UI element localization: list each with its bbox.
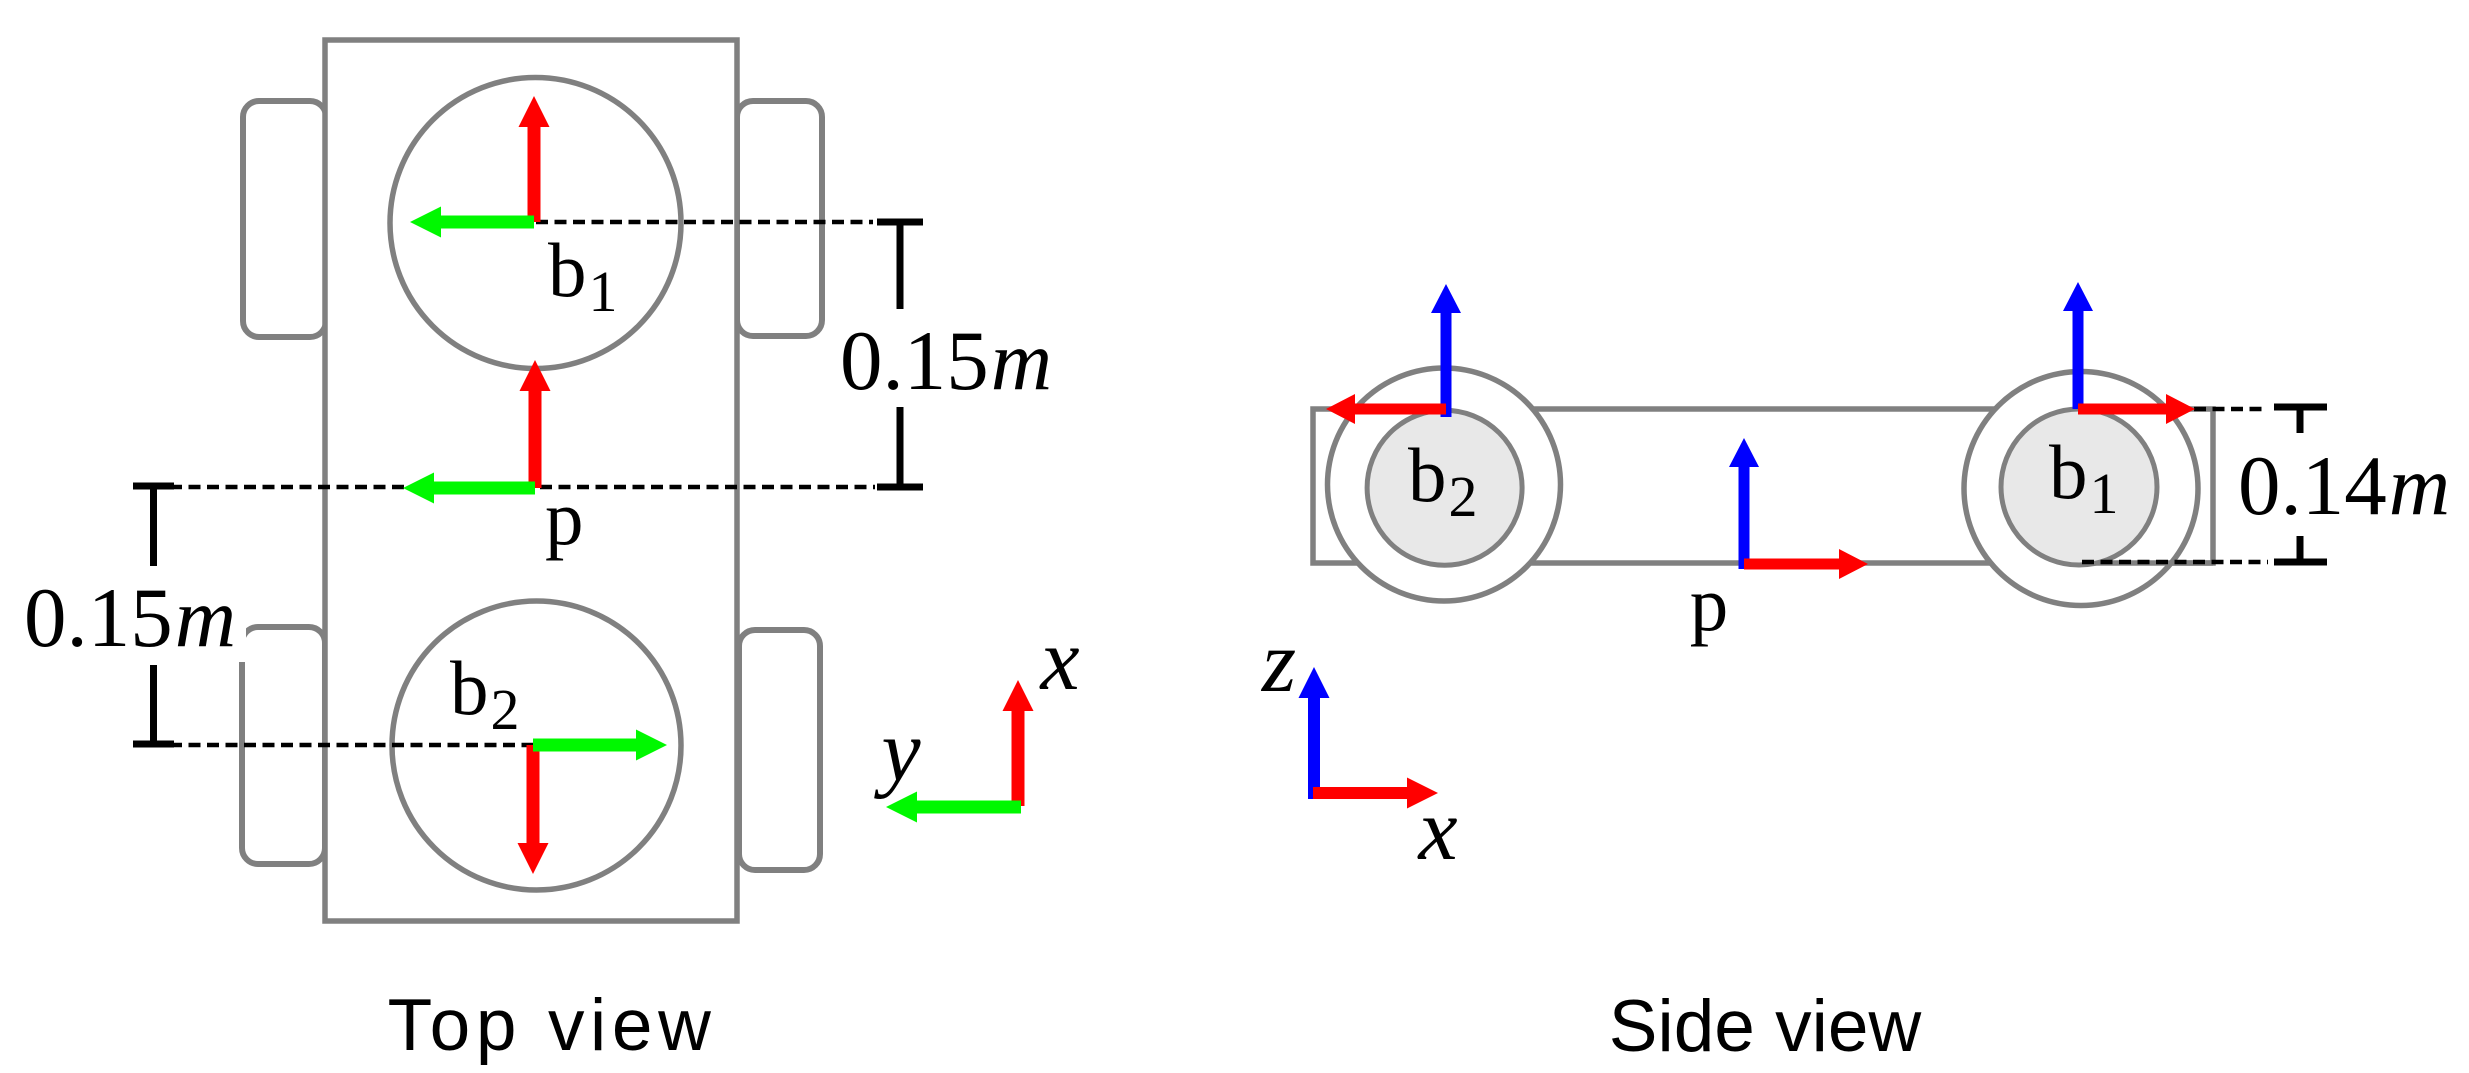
svg-text:x: x [1038, 612, 1079, 709]
svg-text:Side view: Side view [1609, 986, 1922, 1067]
svg-text:p: p [545, 475, 584, 561]
svg-text:z: z [1261, 614, 1296, 711]
svg-text:Top view: Top view [388, 985, 717, 1066]
svg-text:0.15m: 0.15m [24, 571, 236, 665]
svg-text:y: y [873, 703, 921, 800]
svg-text:x: x [1416, 782, 1457, 879]
svg-text:0.14m: 0.14m [2238, 439, 2450, 533]
svg-text:0.15m: 0.15m [840, 314, 1052, 408]
svg-text:p: p [1690, 561, 1729, 647]
